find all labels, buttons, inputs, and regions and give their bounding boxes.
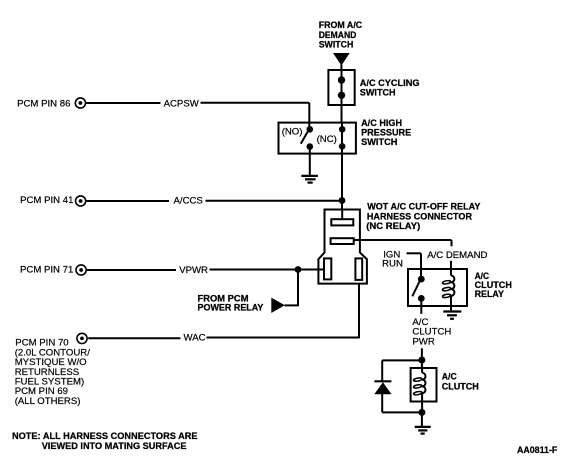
junction A/CCS node xyxy=(339,197,346,204)
svg-text:ACPSW: ACPSW xyxy=(164,98,200,109)
svg-text:PWR: PWR xyxy=(412,337,434,348)
A/C clutch relay box xyxy=(408,269,467,306)
A/C cycling switch xyxy=(328,70,354,105)
net label IGN RUN xyxy=(382,249,403,269)
wire WAC riser to connector pin 4 xyxy=(358,284,360,339)
svg-text:A/CCS: A/CCS xyxy=(174,196,203,207)
svg-text:PCM PIN 41: PCM PIN 41 xyxy=(20,195,73,206)
svg-text:PCM PIN 71: PCM PIN 71 xyxy=(20,264,73,275)
connector pin 1 xyxy=(331,219,353,225)
wire A/C demand to relay coil xyxy=(450,261,452,269)
wire to flyback diode xyxy=(382,360,422,381)
label A/C CYCLING SWITCH xyxy=(360,78,420,99)
ground under clutch xyxy=(415,412,431,433)
svg-text:CLUTCH: CLUTCH xyxy=(442,381,479,392)
junction clutch bottom node xyxy=(418,409,425,416)
ground under NO contact xyxy=(301,147,318,183)
svg-text:(NC RELAY): (NC RELAY) xyxy=(366,221,420,232)
PCM pin 41 terminal xyxy=(20,195,86,206)
label FROM A/C DEMAND SWITCH xyxy=(319,20,363,50)
WOT A/C cut-off relay harness connector outline xyxy=(318,210,367,284)
PCM pin 70 terminal xyxy=(15,333,91,407)
ground under relay coil xyxy=(443,312,461,319)
wire ACPSW segment 2 xyxy=(201,102,310,104)
svg-text:VPWR: VPWR xyxy=(179,265,208,276)
wire VPWR segment 1 xyxy=(87,269,176,271)
junction VPWR node xyxy=(295,266,302,273)
label A/C CLUTCH RELAY xyxy=(475,271,512,300)
arrow from PCM power relay xyxy=(271,298,285,313)
label A/C HIGH PRESSURE SWITCH xyxy=(361,118,412,148)
svg-text:RELAY: RELAY xyxy=(475,289,505,300)
svg-text:(NO): (NO) xyxy=(282,126,303,137)
wire A/CCS segment 2 xyxy=(206,200,343,202)
svg-text:SWITCH: SWITCH xyxy=(361,137,397,148)
svg-text:POWER RELAY: POWER RELAY xyxy=(198,302,264,313)
svg-text:AA0811-F: AA0811-F xyxy=(517,445,557,456)
wire cycling switch to high pressure switch xyxy=(341,70,343,123)
relay coil xyxy=(442,269,454,311)
relay switch contacts xyxy=(412,276,424,302)
svg-text:RUN: RUN xyxy=(382,258,403,269)
wire from PCM power relay riser xyxy=(285,270,299,306)
PCM pin 71 terminal xyxy=(20,264,86,275)
wire diode to bottom junction xyxy=(382,393,422,412)
label WOT A/C CUT-OFF RELAY HARNESS CONNECTOR (NC RELAY) xyxy=(366,202,481,232)
wire ACPSW drop to NO contact xyxy=(308,103,310,128)
net label A/C CLUTCH PWR xyxy=(412,317,451,348)
svg-text:(ALL OTHERS): (ALL OTHERS) xyxy=(15,396,81,407)
A/C high pressure switch xyxy=(279,123,356,154)
wire WAC segment 2 xyxy=(206,337,359,339)
svg-text:A/C DEMAND: A/C DEMAND xyxy=(427,250,487,261)
wire relay switch to A/C clutch pwr xyxy=(420,298,422,313)
connector pin 4 xyxy=(355,258,362,280)
wire VPWR segment 2 xyxy=(210,269,325,271)
svg-text:SWITCH: SWITCH xyxy=(360,88,396,99)
svg-text:SWITCH: SWITCH xyxy=(319,39,354,50)
wire into connector pin 1 xyxy=(341,210,343,220)
wire IGN RUN to relay switch xyxy=(407,253,422,279)
svg-text:PCM PIN 86: PCM PIN 86 xyxy=(17,98,70,109)
label FROM PCM POWER RELAY xyxy=(198,293,264,313)
wire WAC segment 1 xyxy=(88,337,180,339)
PCM pin 86 terminal xyxy=(17,98,85,110)
arrow from A/C demand switch xyxy=(333,53,350,70)
note text xyxy=(12,431,198,452)
wire junction to connector xyxy=(341,201,343,210)
svg-text:WAC: WAC xyxy=(184,333,206,344)
wire A/CCS segment 1 xyxy=(86,200,169,202)
svg-text:(NC): (NC) xyxy=(317,134,337,145)
A/C clutch box xyxy=(411,368,437,402)
diode flyback xyxy=(374,381,391,394)
connector pin 3 xyxy=(324,258,331,279)
wire NC contact down to A/CCS junction xyxy=(341,123,343,201)
label A/C CLUTCH xyxy=(442,371,479,392)
connector pin 2 xyxy=(331,238,354,244)
wire A/C clutch pwr to junction xyxy=(421,348,423,360)
clutch coil xyxy=(413,368,425,412)
wire ACPSW segment 1 xyxy=(86,102,160,104)
svg-text:VIEWED INTO MATING SURFACE: VIEWED INTO MATING SURFACE xyxy=(42,441,187,452)
wire connector pin 2 to A/C demand xyxy=(354,240,452,246)
wire junction into clutch box xyxy=(421,360,423,368)
junction clutch top node xyxy=(418,357,425,364)
